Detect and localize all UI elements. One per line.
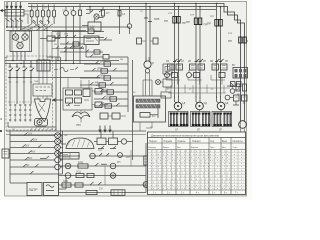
- contactor group 2 box b: [198, 64, 205, 70]
- b-rung 1: [59, 165, 147, 167]
- contact column 4: [30, 61, 35, 79]
- M2 wye: [196, 96, 200, 98]
- crossover wires: [20, 21, 53, 31]
- svg-text:3 т.: 3 т.: [181, 192, 185, 194]
- M1 brushes: [170, 114, 188, 125]
- b-rung0 box marks: [62, 153, 70, 160]
- junction dots: [145, 3, 147, 5]
- contactor 2 coil circle: [187, 73, 192, 78]
- minor col dividers: [152, 150, 238, 191]
- svg-text:7 т.: 7 т.: [235, 192, 239, 194]
- cam block marks: [36, 87, 51, 91]
- relay matrix box: [233, 68, 248, 79]
- table title row: [148, 137, 246, 139]
- b-rung2 coil2: [110, 173, 116, 179]
- routing wire upper: [166, 87, 230, 89]
- exciter box inner: [165, 67, 170, 72]
- cross feed line: [168, 92, 226, 94]
- chuck dome: [66, 138, 94, 149]
- M1 brush caps: [170, 113, 188, 127]
- svg-text:ПС: ПС: [12, 129, 16, 131]
- svg-text:Движение механизмов манипуля: Движение механизмов манипуляторов автома…: [151, 133, 219, 137]
- box leads: [68, 78, 89, 88]
- svg-text:2РУ: 2РУ: [64, 34, 69, 36]
- exciter low box: [161, 92, 171, 98]
- block dots: [38, 59, 39, 60]
- series rung B: [52, 37, 104, 39]
- left feed arrow: [53, 99, 64, 102]
- svg-text:1 т.: 1 т.: [153, 192, 157, 194]
- svg-text:1П: 1П: [33, 8, 36, 10]
- rung r3: [86, 45, 103, 58]
- contactor group 3 box b: [221, 64, 228, 70]
- supply arrow C: [15, 2, 17, 9]
- wires below switch: [7, 16, 21, 31]
- heater flank rect left: [137, 38, 142, 44]
- switch blades: [6, 19, 24, 22]
- rung1: [84, 61, 128, 64]
- wire box to riser: [101, 7, 120, 35]
- riser pair: [146, 4, 150, 63]
- riser contact marks: [144, 18, 152, 22]
- terminal grid row1: [9, 104, 31, 106]
- rung B contacts: [57, 35, 76, 38]
- relay box PU: [84, 36, 99, 45]
- dashed divider: [8, 101, 36, 103]
- M2 brush box: [191, 112, 211, 127]
- svg-text:3КУ: 3КУ: [25, 145, 30, 148]
- M4 leads: [241, 122, 245, 132]
- fuse pair 2: [194, 18, 197, 25]
- rung3 tail: [60, 147, 62, 149]
- b-rung 0: [59, 155, 147, 157]
- dome hatch: [68, 139, 90, 148]
- bus row 2: [8, 77, 100, 79]
- rung A box: [88, 29, 94, 34]
- rung4 tail: [60, 153, 62, 155]
- scan artifact 2: [0, 130, 2, 132]
- horizontal link bus: [5, 61, 119, 64]
- main switch block QS: [5, 10, 24, 17]
- right rail: [128, 57, 133, 131]
- M1 brush box: [169, 112, 189, 127]
- contact box: [47, 36, 55, 41]
- instrument wiring: [12, 31, 30, 52]
- svg-text:6РП: 6РП: [126, 157, 131, 159]
- cam lens box: [35, 119, 48, 127]
- feeder pair 3: [217, 4, 221, 99]
- component rows right mid: [227, 83, 234, 86]
- loop coil row: [54, 67, 78, 72]
- feeder pair 1: [175, 4, 179, 99]
- contact K1: [90, 10, 102, 13]
- svg-text:5РП: 5РП: [98, 150, 103, 152]
- svg-text:ПР: ПР: [207, 22, 211, 26]
- contactor 1 aux box: [172, 73, 178, 78]
- resistor in box: [140, 113, 150, 118]
- supply arrow B: [10, 2, 12, 9]
- b-rung0 contacts: [99, 153, 109, 156]
- contactor group 1 box a: [168, 64, 175, 70]
- svg-text:Вправо: Вправо: [191, 147, 199, 149]
- lamp HL1 leads: [65, 7, 67, 28]
- M1 neck: [175, 98, 179, 104]
- generator M: [144, 61, 151, 68]
- svg-text:2П: 2П: [44, 8, 47, 10]
- motor M2: [196, 102, 204, 110]
- b-rung0 coil: [90, 153, 96, 159]
- lm coil1: [73, 42, 79, 46]
- lamp rung 6: [10, 164, 55, 167]
- svg-text:2В: 2В: [188, 60, 191, 63]
- left link vertical: [51, 32, 53, 61]
- wing shape: [72, 112, 90, 119]
- svg-text:3РП: 3РП: [100, 74, 105, 78]
- drop wire: [86, 7, 90, 14]
- lamp HL1: [64, 11, 69, 16]
- cam circle: [37, 120, 42, 125]
- svg-text:1РП: 1РП: [100, 60, 105, 64]
- svg-text:3П: 3П: [219, 129, 222, 132]
- junction dot: [119, 6, 121, 8]
- relay matrix cells: [235, 69, 247, 77]
- contactor 2 wires: [188, 70, 202, 85]
- rung2 coil: [101, 69, 108, 73]
- M3 hub: [220, 105, 222, 107]
- T2 symbol: [46, 185, 54, 191]
- b-rung1 contact: [95, 163, 107, 166]
- riser tick row: [9, 81, 32, 83]
- svg-text:2КЛ: 2КЛ: [106, 95, 111, 99]
- tiny annotation labels: [5, 1, 240, 159]
- heater links: [142, 40, 154, 42]
- svg-text:ЛАТР: ЛАТР: [29, 188, 39, 192]
- left rail: [10, 131, 63, 178]
- bottom band: [148, 189, 246, 191]
- rung5: [94, 89, 128, 92]
- M3 link: [220, 110, 222, 112]
- svg-text:ПР: ПР: [186, 20, 190, 24]
- terminal strip 1: [136, 99, 160, 102]
- contactor 1 coil circle: [165, 73, 170, 78]
- contact r3: [90, 55, 93, 58]
- strip hatch: [138, 99, 156, 108]
- motor M3: [217, 102, 225, 110]
- fuse FU2 lead: [36, 5, 38, 25]
- exciter box top: [163, 64, 172, 74]
- lamp LH2 x: [56, 140, 60, 144]
- wing stem: [80, 110, 82, 123]
- terminal grid row2: [9, 109, 31, 111]
- down arrows trio: [99, 126, 101, 133]
- b-rung0 box: [60, 153, 79, 160]
- rung wire: [99, 38, 112, 41]
- cluster small contacts: [98, 146, 116, 149]
- aux box marks: [4, 152, 8, 155]
- lamp LH3: [55, 145, 61, 151]
- right motor M4: [239, 121, 247, 129]
- M1 wye: [175, 96, 179, 98]
- right small rect lower: [95, 102, 102, 108]
- blade contacts row: [33, 20, 50, 23]
- rung6: [94, 96, 128, 99]
- body dot texture: [149, 150, 249, 190]
- lamp LH6: [55, 164, 61, 170]
- heater flank rect right: [153, 38, 158, 44]
- fuse FU5: [53, 10, 56, 17]
- extra rungs left-mid: [60, 42, 84, 45]
- svg-text:1СД: 1СД: [78, 161, 83, 164]
- svg-text:СН: СН: [99, 187, 103, 190]
- lamp rung 3: [10, 145, 55, 148]
- shield profile: [35, 99, 51, 122]
- contactor group 2 contacts: [195, 59, 204, 61]
- small rect above M4: [236, 84, 240, 91]
- boxes wires: [108, 115, 126, 117]
- svg-text:2СД: 2СД: [76, 170, 81, 173]
- M3 wye: [217, 96, 221, 98]
- b-rung 3: [59, 184, 147, 186]
- b-rung2 box: [87, 173, 94, 177]
- lamp LH3 x: [56, 146, 60, 150]
- below-matrix circle: [230, 89, 235, 94]
- terminal dots: [7, 26, 16, 28]
- b-rung1 coil2: [110, 163, 116, 169]
- rung4: [80, 82, 128, 85]
- svg-text:Вверх: Вверх: [163, 147, 170, 149]
- svg-text:Пуск: Пуск: [210, 147, 215, 149]
- b-rung1 resistor: [78, 164, 88, 168]
- svg-text:Вперёд: Вперёд: [149, 147, 157, 149]
- fuse FU3: [41, 10, 44, 17]
- svg-text:1КЛ: 1КЛ: [103, 88, 108, 92]
- series rung C contacts: [52, 46, 84, 49]
- bus junction dots: [9, 77, 10, 78]
- rung5 coil: [107, 90, 114, 94]
- control unit box: [88, 22, 101, 31]
- rung5 tail: [60, 159, 62, 161]
- svg-text:Верх: Верх: [222, 141, 228, 143]
- rung7: [94, 103, 128, 106]
- PU innards: [86, 38, 98, 41]
- fuse FU3 lead: [42, 5, 44, 25]
- exciter circle: [156, 80, 161, 85]
- resistor vertical: [102, 10, 105, 16]
- svg-text:1Н: 1Н: [181, 60, 184, 63]
- svg-text:1С: 1С: [152, 114, 156, 118]
- contact column 2: [16, 64, 21, 79]
- contactor 2 marks: [191, 66, 203, 69]
- junction dots on buses: [174, 3, 176, 5]
- low bus pair left: [6, 27, 130, 31]
- multi-switch block: [37, 60, 50, 71]
- bottom collect wire: [8, 122, 56, 131]
- ground hatch: [30, 128, 57, 131]
- M2 hub: [199, 105, 201, 107]
- wire lamp to box: [82, 19, 95, 26]
- wires to bus: [98, 7, 103, 18]
- svg-text:1КУ: 1КУ: [28, 133, 33, 136]
- rail circle cross: [144, 183, 148, 187]
- body row lines: [148, 153, 246, 187]
- header band line: [148, 143, 246, 150]
- motor M1: [174, 102, 182, 110]
- exciter wires: [151, 63, 167, 92]
- PA2 needle: [23, 35, 27, 39]
- cluster wires: [94, 141, 133, 143]
- M2 brush caps: [192, 113, 210, 127]
- supply arrow A: [6, 2, 8, 9]
- M3 neck: [217, 98, 221, 104]
- fuse FU1 lead: [31, 5, 33, 25]
- svg-text:3ПР: 3ПР: [210, 16, 215, 18]
- svg-text:П: П: [246, 39, 248, 43]
- b-rung 2: [59, 175, 147, 177]
- svg-text:РБ: РБ: [101, 102, 105, 106]
- rung6 coil: [110, 97, 117, 101]
- M2 neck: [196, 98, 200, 104]
- terminal grid row4: [9, 119, 31, 121]
- fuse FU2: [36, 10, 39, 17]
- svg-text:·••·•·•·••·••·••·•·•·••·••·•·•: ·••·•·•·••·••·••·•·•·••·••·•·•·••·•·•··•…: [149, 187, 249, 190]
- b-rung2 resistor: [76, 173, 84, 177]
- svg-text:1В: 1В: [166, 60, 169, 63]
- wing cam box: [63, 88, 92, 110]
- svg-text:4 т.: 4 т.: [196, 192, 200, 194]
- box bottom leads: [140, 122, 152, 131]
- svg-text:2Д: 2Д: [204, 101, 207, 105]
- b-rung2 coil: [65, 173, 71, 179]
- b-rung0 circle2: [118, 153, 123, 158]
- contactor group 1 contacts: [173, 59, 182, 61]
- svg-text:3Д: 3Д: [225, 101, 228, 105]
- box relay rects row2: [66, 98, 73, 103]
- series rung A: [52, 31, 104, 33]
- contactor group 1 box b: [176, 64, 183, 70]
- contactor 3 wires: [211, 70, 225, 85]
- left edge aux box: [2, 149, 9, 158]
- lamp LH1 x: [56, 134, 60, 138]
- mid vertical link: [105, 150, 131, 185]
- aux circle: [225, 95, 230, 100]
- rung6 tail: [60, 166, 62, 168]
- feeder pair 2: [196, 4, 200, 99]
- rung3 coil: [104, 76, 111, 80]
- M1 hub: [177, 105, 179, 107]
- bus L2: [28, 7, 245, 122]
- svg-text:3В: 3В: [210, 60, 213, 63]
- svg-text:КС: КС: [133, 92, 136, 94]
- aux contact pair: [234, 95, 240, 101]
- right rail circle: [143, 182, 149, 188]
- routing stubs: [171, 85, 224, 94]
- svg-text:2Н: 2Н: [203, 60, 206, 63]
- svg-text:Вкл.: Вкл.: [177, 147, 182, 149]
- box T1: [27, 183, 42, 196]
- T2 wire: [59, 178, 67, 189]
- M1 link: [177, 110, 179, 112]
- generator small circle: [145, 69, 149, 73]
- cluster box B: [109, 138, 118, 145]
- svg-text:1А: 1А: [122, 12, 125, 16]
- contactor 3 aux box: [219, 73, 225, 78]
- right small rect upper: [95, 89, 102, 95]
- paper background: [0, 0, 252, 200]
- svg-text:1П: 1П: [175, 129, 178, 132]
- fuse pair 1: [173, 17, 176, 24]
- rung3: [80, 75, 128, 78]
- grid risers: [10, 104, 30, 122]
- svg-text:ПР: ПР: [164, 19, 168, 23]
- rung2 tail: [60, 141, 62, 143]
- right rect wires: [92, 91, 108, 105]
- svg-text:2КУ: 2КУ: [33, 139, 38, 142]
- fuse FU5 lead: [53, 5, 55, 25]
- small boxes right of wing: [100, 113, 108, 119]
- rung r2: [64, 46, 84, 49]
- drawing paper: [5, 2, 247, 197]
- svg-text:Низ: Низ: [222, 147, 226, 149]
- contactor group 3 box a: [212, 64, 219, 70]
- svg-text:4РП: 4РП: [96, 85, 101, 87]
- cluster box A: [97, 138, 106, 145]
- instrument box: [10, 31, 32, 52]
- svg-text:5 т.: 5 т.: [212, 192, 216, 194]
- b-bottom box: [111, 190, 125, 196]
- terminal box: [134, 96, 166, 122]
- contactor group 3 contacts: [215, 59, 224, 61]
- svg-text:5КУ: 5КУ: [28, 157, 33, 160]
- box relay rects row1: [66, 90, 73, 95]
- lamp rung 4: [10, 151, 55, 154]
- wires into box: [13, 22, 33, 32]
- lamp HL2: [71, 11, 76, 16]
- generator top leads: [146, 57, 149, 61]
- svg-text:1ПР: 1ПР: [168, 13, 173, 15]
- control fuse lead: [79, 4, 81, 28]
- mid horizontal bus: [6, 130, 146, 132]
- riser lamp leads: [129, 7, 131, 35]
- switch block poles: [39, 60, 47, 71]
- M3 brushes: [214, 114, 232, 125]
- rung1 coil: [104, 62, 111, 66]
- b-rung3 box2: [75, 183, 83, 187]
- coil r3: [103, 55, 109, 60]
- svg-text:Перекл.: Перекл.: [149, 141, 158, 143]
- b-rung3 contact: [90, 182, 102, 185]
- meter mark: [95, 15, 98, 17]
- contact column 3: [23, 61, 28, 79]
- terminal strip 2: [136, 105, 160, 108]
- b-bottom resistor: [86, 190, 97, 194]
- b-bottom box marks: [114, 190, 122, 196]
- riser dots: [38, 26, 39, 27]
- lamp LH4 x: [56, 152, 60, 156]
- wires below box: [13, 52, 25, 61]
- incoming line arrow: [1, 9, 6, 12]
- svg-text:Стоп: Стоп: [233, 147, 238, 149]
- rung2: [84, 68, 128, 71]
- switch poles: [7, 10, 21, 17]
- svg-text:1Д: 1Д: [182, 101, 185, 105]
- fuse FU4 lead: [48, 5, 50, 25]
- svg-text:ЩУ: ЩУ: [5, 57, 9, 59]
- M3 brush caps: [213, 113, 231, 127]
- svg-text:3Н: 3Н: [225, 60, 228, 63]
- lamp rung 5: [10, 156, 55, 160]
- svg-text:Ход: Ход: [210, 141, 215, 143]
- right rail resistor: [144, 156, 148, 165]
